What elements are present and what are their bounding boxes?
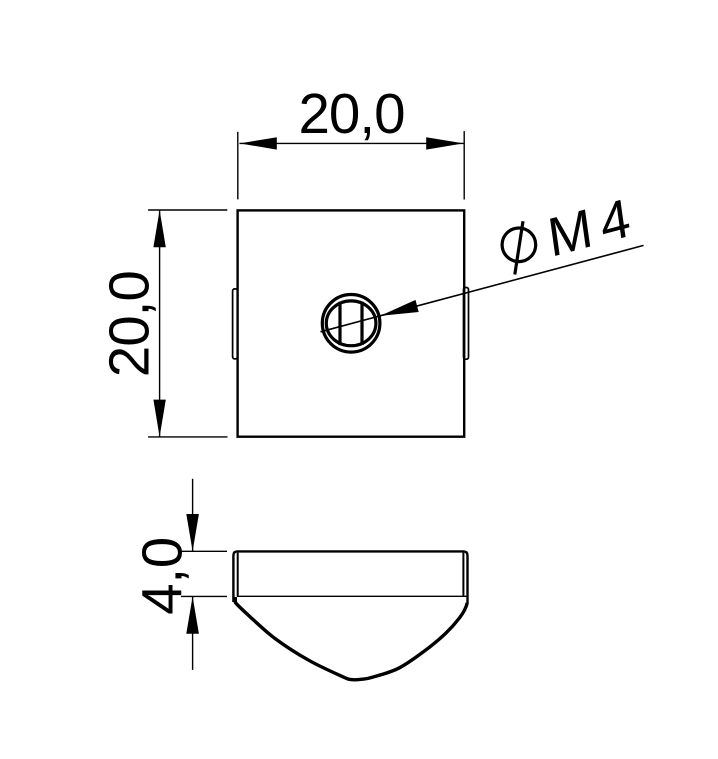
top dimension: left extension line (237, 132, 239, 200)
side view: band bottom line (237, 595, 467, 597)
4,0 dimension: upper arrowhead (points down) (186, 514, 199, 551)
hole: left vertical chord (338, 302, 341, 345)
4,0 dimension: top extension line (181, 550, 227, 552)
4,0 dimension: upper dim line segment (192, 479, 194, 552)
hole: right vertical chord (360, 302, 363, 345)
left dimension: top arrowhead (153, 210, 165, 247)
side view: outer band outline (top + sides, rounded corners) (233, 551, 467, 603)
svg-text:20,0: 20,0 (97, 270, 160, 377)
top dimension: right arrowhead (426, 137, 463, 149)
diameter symbol slash (515, 221, 523, 274)
4,0 dimension: bottom extension line (181, 595, 227, 597)
hole: inner circle (326, 301, 376, 346)
left dimension: top extension line (148, 209, 227, 211)
svg-text:4,0: 4,0 (131, 537, 194, 615)
diameter symbol circle (502, 228, 536, 262)
side view: keel curve (235, 597, 467, 680)
4,0 dimension: lower arrowhead (points up) (186, 596, 199, 633)
top view: right spring tab (464, 288, 469, 360)
top view: left spring tab (233, 289, 238, 359)
top dimension: left arrowhead (240, 137, 277, 149)
left dimension line (159, 210, 161, 437)
top dimension: right extension line (463, 131, 465, 199)
left dimension: bottom extension line (148, 436, 227, 438)
4,0 dimension: lower dim line segment (192, 596, 194, 670)
side view: inner right vertical line (462, 553, 464, 597)
leader arrowhead (380, 300, 418, 316)
leader line to hole (321, 245, 644, 331)
side view: inner left vertical line (237, 553, 239, 597)
left dimension: bottom arrowhead (153, 400, 165, 437)
top dimension line (240, 142, 464, 144)
hole: outer thread circle (322, 295, 380, 353)
top view: square body outline (238, 210, 465, 436)
svg-text:20,0: 20,0 (299, 82, 406, 145)
